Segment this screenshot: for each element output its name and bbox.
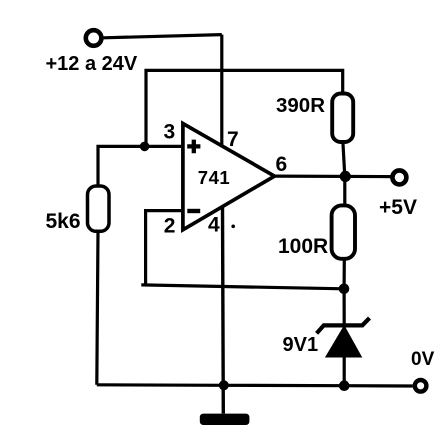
node feedback junction dot bbox=[339, 284, 350, 295]
stray dot after pin 4 bbox=[231, 225, 235, 229]
terminal +12V input bbox=[86, 30, 102, 46]
wire pin 3 input (from 5k6 top corner to op-amp + input) bbox=[98, 146, 181, 186]
svg-text:390R: 390R bbox=[276, 94, 325, 117]
node 0V rail junction dot at zener bbox=[339, 380, 350, 391]
wire top rail from +12V terminal to pin 7 drop bbox=[104, 35, 222, 38]
svg-text:5k6: 5k6 bbox=[46, 210, 81, 233]
op-amp - input symbol bbox=[187, 209, 200, 213]
svg-text:741: 741 bbox=[198, 167, 230, 188]
svg-text:4: 4 bbox=[208, 213, 220, 236]
wire 5k6 bottom lead down to 0V rail bbox=[97, 231, 98, 384]
resistor 5k6 bbox=[88, 186, 110, 231]
svg-text:3: 3 bbox=[164, 121, 176, 144]
wire +V rail y=70 to 390R top bbox=[146, 70, 343, 145]
resistor 390R bbox=[332, 94, 353, 143]
wire zener anode down to 0V rail bbox=[343, 357, 346, 386]
terminal 0V bbox=[415, 380, 427, 392]
wire bottom 0V rail bbox=[97, 385, 413, 386]
wire 100R bottom lead to feedback node bbox=[343, 259, 346, 289]
zener diode 9V1 anode triangle bbox=[326, 327, 361, 357]
svg-text:100R: 100R bbox=[278, 235, 328, 258]
svg-text:0V: 0V bbox=[411, 349, 435, 370]
node output junction dot bbox=[340, 171, 351, 182]
resistor 100R bbox=[332, 205, 355, 258]
op-amp 741 triangle bbox=[183, 124, 275, 230]
svg-text:+5V: +5V bbox=[379, 196, 417, 219]
op-amp + input symbol bbox=[187, 140, 200, 154]
svg-text:6: 6 bbox=[276, 153, 288, 176]
zener diode 9V1 cathode bar bbox=[317, 318, 370, 333]
svg-text:9V1: 9V1 bbox=[283, 334, 319, 356]
wire feedback node down to zener cathode bbox=[343, 289, 346, 324]
wire output node down to 100R top bbox=[343, 176, 346, 205]
node A junction dot (pin 3 / divider tap) bbox=[140, 142, 150, 152]
svg-text:7: 7 bbox=[227, 128, 239, 151]
wire output pin 6 to +5V terminal bbox=[275, 175, 392, 179]
wire pin 7 vertical (x=222, rail to op-amp top edge) bbox=[220, 35, 223, 145]
wire 390R bottom lead to output node bbox=[343, 142, 345, 176]
ground bbox=[200, 414, 250, 425]
svg-text:+12 a 24V: +12 a 24V bbox=[46, 53, 138, 75]
svg-text:2: 2 bbox=[164, 215, 176, 238]
wire feedback (corner to divider junction, slightly sloped) bbox=[141, 285, 344, 289]
wire pin 2 inverting input to feedback corner bbox=[146, 211, 181, 285]
node ground-rail junction dot at pin4 line bbox=[219, 380, 229, 390]
terminal +5V output bbox=[392, 170, 406, 184]
wire pin 4 vertical down to ground bbox=[221, 207, 225, 414]
